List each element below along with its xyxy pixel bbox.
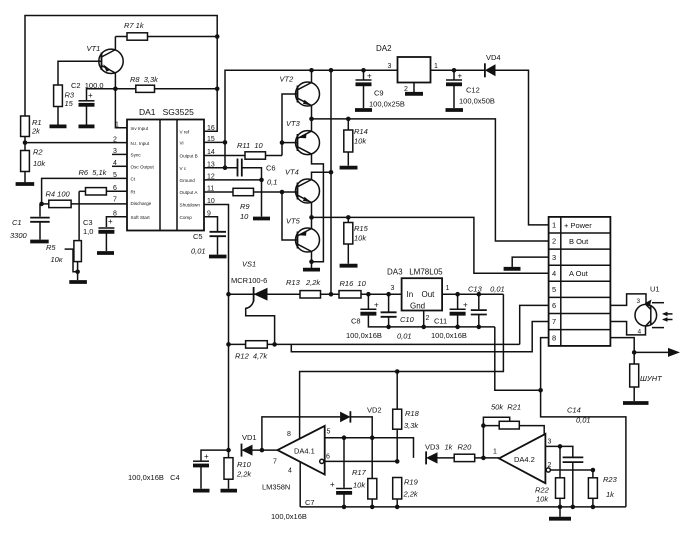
capacitor C3 (electrolytic 1,0) bbox=[83, 217, 127, 251]
svg-text:5: 5 bbox=[552, 285, 556, 294]
svg-text:+: + bbox=[463, 301, 468, 310]
svg-text:R16 10: R16 10 bbox=[340, 279, 367, 288]
svg-text:Rt: Rt bbox=[131, 190, 136, 195]
wire pin15 Vi bbox=[204, 141, 225, 143]
wire row3 to ground bbox=[512, 257, 548, 267]
svg-text:VT3: VT3 bbox=[286, 119, 301, 128]
resistor R9 (pin11 Output A) bbox=[204, 188, 282, 221]
ground under C2 bbox=[79, 125, 95, 129]
svg-text:100,0x50В: 100,0x50В bbox=[459, 97, 495, 106]
svg-text:15: 15 bbox=[65, 99, 74, 108]
node C7 tap bbox=[342, 435, 347, 440]
capacitor C9 (electrolytic 100,0x25В) bbox=[356, 70, 405, 108]
svg-text:Comp: Comp bbox=[180, 215, 193, 220]
resistor R18 bbox=[393, 372, 420, 462]
svg-text:U1: U1 bbox=[650, 285, 660, 294]
svg-text:Out: Out bbox=[422, 290, 436, 299]
svg-text:100,0x25В: 100,0x25В bbox=[369, 100, 405, 109]
node R17 on rail bbox=[370, 505, 375, 510]
resistor R15 bbox=[344, 217, 369, 263]
wire pin6 line bbox=[320, 459, 398, 463]
svg-text:2: 2 bbox=[426, 315, 430, 322]
capacitor C1 3300 bbox=[10, 204, 50, 240]
node R20/R21 tap bbox=[481, 456, 486, 461]
svg-text:3: 3 bbox=[548, 439, 552, 446]
svg-text:R8 3,3k: R8 3,3k bbox=[130, 75, 159, 84]
ground under R14 bbox=[340, 166, 358, 170]
svg-text:Soft Start: Soft Start bbox=[131, 215, 151, 220]
svg-text:2k: 2k bbox=[31, 127, 41, 136]
svg-text:100,0x16В C4: 100,0x16В C4 bbox=[128, 473, 180, 482]
node shunt top bbox=[632, 350, 637, 355]
svg-text:R4 100: R4 100 bbox=[46, 190, 71, 199]
svg-text:In: In bbox=[407, 290, 414, 299]
node VT3 base bbox=[280, 140, 285, 145]
svg-text:Inv Input: Inv Input bbox=[131, 126, 149, 131]
svg-text:C6: C6 bbox=[266, 164, 276, 173]
wire +V rail after DA2 bbox=[431, 69, 485, 71]
svg-text:3: 3 bbox=[388, 63, 392, 70]
ground under R22 bbox=[549, 517, 571, 521]
wire pin5 line bbox=[325, 438, 414, 458]
resistor R14 bbox=[344, 119, 368, 166]
wire pin13 Vc bbox=[204, 167, 238, 169]
node A junction bbox=[309, 215, 314, 220]
svg-text:100,0x16В: 100,0x16В bbox=[431, 331, 467, 340]
svg-text:VT2: VT2 bbox=[280, 75, 295, 84]
ground under R15 bbox=[340, 264, 358, 268]
node R5 wiper tie bbox=[75, 270, 80, 275]
svg-text:C2 100,0: C2 100,0 bbox=[71, 81, 104, 90]
svg-text:VD2: VD2 bbox=[367, 406, 382, 415]
resistor R6 bbox=[79, 168, 128, 241]
resistor R13 bbox=[286, 278, 339, 298]
resistor R23 bbox=[588, 470, 617, 507]
svg-text:VT1: VT1 bbox=[87, 44, 101, 53]
node C9 tap bbox=[361, 68, 366, 73]
resistor R8 bbox=[115, 75, 217, 92]
node R19 on rail bbox=[395, 505, 400, 510]
node B junction bbox=[309, 117, 314, 122]
node VT3/VT5 collector join bbox=[309, 259, 314, 264]
wire common elbow to bottom rail bbox=[541, 390, 626, 507]
wire pin4 to bottom rail bbox=[299, 462, 301, 507]
ground under C12 bbox=[446, 108, 464, 112]
wire A line bbox=[312, 217, 549, 273]
svg-text:C10: C10 bbox=[400, 315, 415, 324]
svg-text:6: 6 bbox=[326, 454, 330, 461]
svg-text:R10: R10 bbox=[237, 460, 252, 469]
wire +V rail bbox=[225, 70, 398, 167]
svg-text:ШУНТ: ШУНТ bbox=[640, 374, 663, 383]
ground under shunt bbox=[623, 401, 649, 405]
svg-text:Vi: Vi bbox=[180, 141, 184, 146]
svg-text:+: + bbox=[330, 480, 335, 489]
wire shutdown rail continues down bbox=[228, 294, 230, 450]
svg-text:1k: 1k bbox=[445, 443, 454, 452]
svg-text:V c: V c bbox=[180, 166, 187, 171]
svg-text:7: 7 bbox=[552, 317, 556, 326]
IC DA1 left pin names bbox=[131, 126, 155, 220]
capacitor C11 (electrolytic 100,0x16В) bbox=[434, 294, 468, 327]
wire pin8 V+ riser bbox=[299, 417, 301, 439]
node C8 tap bbox=[366, 292, 371, 297]
svg-text:DA4.2: DA4.2 bbox=[514, 455, 535, 464]
resistor R10 bbox=[224, 450, 252, 489]
wire Vref net down to pin16 bbox=[204, 37, 217, 132]
ground under R2 bbox=[16, 182, 35, 186]
svg-text:+: + bbox=[204, 452, 209, 461]
wire pin3 line bbox=[545, 446, 572, 456]
ground under C1 bbox=[30, 240, 49, 244]
node +V drop top bbox=[329, 68, 334, 73]
ground under C9 bbox=[355, 108, 372, 112]
node pin3/R22 bbox=[558, 444, 563, 449]
svg-text:C13 0,01: C13 0,01 bbox=[468, 285, 505, 294]
wire VT2/VT3 base riser bbox=[282, 94, 298, 156]
svg-text:VS1: VS1 bbox=[242, 260, 256, 269]
svg-text:R12 4,7k: R12 4,7k bbox=[235, 352, 268, 361]
svg-text:6: 6 bbox=[552, 301, 556, 310]
wire VT4 emitter / VT5 emitter junction bbox=[311, 203, 313, 229]
node VT2 collector on rail bbox=[309, 68, 314, 73]
wire +V drop to R13/R16 node bbox=[330, 70, 332, 294]
svg-text:3: 3 bbox=[391, 285, 395, 292]
wire VT4 collector to +V drop bbox=[312, 172, 332, 179]
capacitor C14 0,01 bbox=[563, 406, 591, 507]
svg-text:1: 1 bbox=[434, 63, 438, 70]
op-amp DA4.2 bbox=[493, 434, 552, 483]
node C13 bottom bbox=[477, 325, 482, 330]
svg-text:3: 3 bbox=[552, 253, 556, 262]
pin 4 stub bbox=[112, 165, 127, 167]
ground under VT5 bbox=[303, 268, 320, 272]
svg-text:C8: C8 bbox=[351, 317, 361, 326]
svg-text:1k: 1k bbox=[606, 490, 615, 499]
resistor ШУНТ bbox=[630, 364, 663, 401]
svg-text:C9: C9 bbox=[374, 89, 384, 98]
ground under R10 bbox=[221, 489, 238, 493]
svg-text:C12: C12 bbox=[466, 86, 480, 95]
connector X1 bbox=[549, 217, 611, 346]
svg-text:+: + bbox=[108, 217, 113, 226]
wire H2 row7 line bbox=[291, 322, 548, 352]
node R7/top rail bbox=[215, 34, 220, 39]
wire VT4 base bbox=[282, 191, 298, 193]
wire top rail from R1 to Vref net bbox=[25, 16, 217, 117]
svg-text:LM358N: LM358N bbox=[262, 483, 290, 492]
svg-text:B Out: B Out bbox=[569, 237, 589, 246]
pin 3 stub bbox=[112, 153, 127, 155]
svg-text:C1: C1 bbox=[12, 218, 22, 227]
wire VT5 base riser bbox=[282, 192, 298, 240]
thyristor VS1 MCR100-6 bbox=[231, 260, 275, 345]
op IC DA1 box bbox=[127, 107, 204, 231]
node minus/row8 join bbox=[538, 388, 543, 393]
svg-text:A Out: A Out bbox=[569, 269, 589, 278]
svg-text:R5: R5 bbox=[46, 243, 56, 252]
transistor VT2 (NPN) bbox=[280, 75, 320, 107]
svg-text:Ct: Ct bbox=[131, 177, 136, 182]
node DA3 gnd on minus rail bbox=[421, 325, 426, 330]
node R15 tap bbox=[346, 215, 351, 220]
ground under C5 bbox=[209, 255, 227, 259]
wire DA3 gnd pin2 bbox=[423, 311, 425, 327]
svg-text:+ Power: + Power bbox=[564, 221, 592, 230]
svg-text:1: 1 bbox=[493, 449, 497, 456]
diode VD3 bbox=[425, 443, 454, 465]
wire pin10 Shutdown drop bbox=[204, 205, 229, 295]
svg-text:1: 1 bbox=[552, 221, 556, 230]
node C12 tap bbox=[452, 68, 457, 73]
svg-text:DA4.1: DA4.1 bbox=[294, 447, 315, 456]
svg-text:R22: R22 bbox=[535, 486, 550, 495]
svg-text:2: 2 bbox=[113, 136, 117, 143]
svg-text:R2: R2 bbox=[33, 148, 43, 157]
wire row6 right to U1 pin3 bbox=[610, 294, 646, 306]
svg-text:0,1: 0,1 bbox=[267, 178, 277, 187]
svg-text:10k: 10k bbox=[33, 159, 46, 168]
potentiometer R21 bbox=[481, 403, 544, 458]
wire emitter to pin1 bbox=[115, 89, 127, 128]
node ground pin12 bbox=[259, 178, 264, 183]
svg-text:Osc Output: Osc Output bbox=[131, 165, 155, 170]
svg-text:1: 1 bbox=[115, 122, 119, 129]
ground under C4 bbox=[193, 489, 210, 493]
ground row3 bbox=[504, 267, 521, 271]
capacitor C2 (electrolytic 100,0) bbox=[71, 81, 115, 125]
diode VD2 bbox=[340, 406, 381, 438]
wire pin2 line bbox=[546, 468, 593, 472]
node C10 top bbox=[386, 292, 391, 297]
svg-text:VT5: VT5 bbox=[286, 217, 301, 226]
wire VT3 collector jog to ground rail bbox=[312, 154, 324, 262]
node VD2/R17 tap bbox=[370, 435, 375, 440]
svg-text:C7: C7 bbox=[305, 498, 315, 507]
wire VS1 anode line bbox=[229, 293, 301, 295]
capacitor C10 0,01 bbox=[381, 294, 415, 327]
node R8/Vref net bbox=[215, 87, 220, 92]
resistor R2 bbox=[21, 143, 47, 183]
node VS1 gate / R12 bbox=[272, 342, 277, 347]
wire VT2 emitter / VT3 emitter junction bbox=[311, 106, 313, 132]
svg-text:R9: R9 bbox=[240, 202, 250, 211]
node Vc bbox=[223, 165, 228, 170]
value labels under minus rail bbox=[346, 331, 467, 341]
svg-text:10к: 10к bbox=[51, 255, 63, 264]
svg-text:R23: R23 bbox=[603, 475, 618, 484]
wire R12 line H1 to row6 bbox=[229, 343, 246, 345]
svg-text:DA1 SG3525: DA1 SG3525 bbox=[139, 107, 194, 117]
svg-text:10k: 10k bbox=[536, 495, 549, 504]
ground under C3 bbox=[97, 251, 114, 255]
op-amp DA4.1 bbox=[262, 426, 331, 492]
svg-text:3300: 3300 bbox=[10, 231, 28, 240]
svg-text:VD4: VD4 bbox=[486, 53, 501, 62]
svg-text:DA3 LM78L05: DA3 LM78L05 bbox=[387, 268, 443, 277]
svg-text:0,01: 0,01 bbox=[191, 247, 206, 256]
node rail/R12 bbox=[226, 342, 231, 347]
svg-text:+: + bbox=[458, 72, 463, 81]
resistor R17 bbox=[352, 438, 377, 507]
wire DA3 out bbox=[442, 293, 503, 295]
resistor R16 bbox=[339, 279, 402, 298]
svg-text:Ground: Ground bbox=[180, 178, 196, 183]
svg-text:VT4: VT4 bbox=[285, 168, 299, 177]
resistor R12 bbox=[235, 341, 520, 361]
IC DA1 right pin names bbox=[180, 129, 201, 220]
svg-text:3: 3 bbox=[637, 298, 641, 305]
svg-text:2: 2 bbox=[552, 237, 556, 246]
node R13/R16/+V drop bbox=[329, 292, 334, 297]
wire pin5 Ct bbox=[42, 178, 127, 204]
node R23 on rail bbox=[591, 505, 596, 510]
svg-text:R11 10: R11 10 bbox=[237, 141, 264, 150]
svg-text:C5: C5 bbox=[193, 232, 203, 241]
svg-text:C14: C14 bbox=[567, 406, 581, 415]
svg-text:Sync: Sync bbox=[131, 153, 142, 158]
svg-text:0,01: 0,01 bbox=[397, 332, 412, 341]
svg-text:10k: 10k bbox=[354, 234, 367, 243]
svg-text:C11: C11 bbox=[434, 317, 447, 326]
node C14 on rail bbox=[571, 505, 576, 510]
node DA4.1 output / feedback bbox=[260, 448, 265, 453]
IC DA1 pin numbers right bbox=[207, 125, 215, 218]
node C11 bottom bbox=[455, 325, 460, 330]
capacitor C8 (electrolytic 100,0x16В) bbox=[351, 294, 495, 327]
wire row7 right to U1 pin4 bbox=[610, 322, 645, 335]
node C11 top bbox=[455, 292, 460, 297]
wire VT2 collector bbox=[311, 70, 313, 82]
node shutdown rail at VS1 line bbox=[226, 292, 231, 297]
wire VD4 to connector row1 bbox=[496, 70, 549, 225]
wire H1 up to row6 bbox=[520, 305, 549, 344]
wire to ground symbol bbox=[261, 180, 263, 217]
ground under DA2 bbox=[405, 92, 423, 96]
ground under R5 bbox=[69, 280, 87, 284]
node R14 tap bbox=[346, 117, 351, 122]
node VT4 collector tap bbox=[329, 170, 334, 175]
node C10 bottom bbox=[386, 325, 391, 330]
node junction R1/R2/pin2 bbox=[23, 140, 28, 145]
svg-text:VD3: VD3 bbox=[425, 443, 440, 452]
diode VD4 bbox=[485, 53, 501, 77]
transistor VT5 (PNP) bbox=[286, 217, 320, 253]
svg-text:3,3k: 3,3k bbox=[404, 421, 419, 430]
svg-text:+: + bbox=[367, 72, 372, 81]
resistor R3 bbox=[54, 85, 75, 125]
light arrows into U1 bbox=[662, 312, 673, 322]
svg-text:8: 8 bbox=[552, 333, 556, 342]
node C7 on rail bbox=[342, 505, 347, 510]
wire minus rail descent bbox=[495, 327, 541, 390]
svg-text:R17: R17 bbox=[352, 468, 367, 477]
resistor R22 bbox=[535, 446, 565, 516]
svg-text:4: 4 bbox=[638, 329, 642, 336]
svg-text:R6 5,1k: R6 5,1k bbox=[79, 168, 108, 177]
svg-text:7: 7 bbox=[113, 197, 117, 204]
resistor R7 bbox=[115, 21, 217, 50]
resistor R4 bbox=[42, 190, 127, 208]
ground under R3 bbox=[50, 125, 67, 129]
svg-text:VD1: VD1 bbox=[242, 433, 257, 442]
capacitor C13 0,01 bbox=[468, 285, 505, 327]
wire H3 R18 tap bbox=[395, 369, 400, 374]
node Vi bbox=[223, 140, 228, 145]
svg-text:4: 4 bbox=[288, 468, 292, 475]
wire VT5 collector to ground bbox=[311, 252, 313, 270]
wire pin2 N.I.Input bbox=[25, 142, 127, 144]
svg-text:16: 16 bbox=[207, 125, 215, 132]
wire VT3 base bbox=[282, 142, 298, 144]
svg-text:10k: 10k bbox=[354, 137, 367, 146]
svg-text:R13 2,2k: R13 2,2k bbox=[286, 278, 321, 287]
node VT4 base bbox=[280, 190, 285, 195]
svg-text:R20: R20 bbox=[458, 443, 473, 452]
capacitor C4 (electrolytic 100,0x16В) bbox=[128, 450, 229, 489]
svg-text:10k: 10k bbox=[353, 481, 366, 490]
svg-text:R15: R15 bbox=[354, 224, 369, 233]
svg-text:1: 1 bbox=[446, 285, 450, 292]
wire B line bbox=[312, 119, 549, 241]
node pin2/R23 bbox=[591, 468, 596, 473]
svg-text:R18: R18 bbox=[405, 409, 420, 418]
svg-text:1,0: 1,0 bbox=[83, 227, 93, 236]
svg-text:R7 1k: R7 1k bbox=[124, 21, 145, 30]
wire row8 left to minus node bbox=[541, 338, 549, 391]
resistor R11 (pin14 Output B) bbox=[204, 141, 282, 159]
capacitor C5 0,01 (pin9 Comp) bbox=[191, 217, 226, 256]
svg-text:Shutdown: Shutdown bbox=[180, 203, 201, 208]
resistor R20 bbox=[454, 443, 499, 462]
svg-text:50k R21: 50k R21 bbox=[491, 403, 521, 412]
svg-text:10: 10 bbox=[240, 212, 249, 221]
svg-text:7: 7 bbox=[273, 459, 277, 466]
resistor R1 bbox=[21, 116, 42, 143]
regulator DA2 bbox=[376, 44, 438, 93]
svg-text:DA2: DA2 bbox=[376, 44, 392, 53]
ground of C6 net bbox=[253, 217, 270, 221]
svg-text:MCR100-6: MCR100-6 bbox=[231, 276, 267, 285]
wire row8 right to shunt / output arrow bbox=[610, 338, 634, 364]
regulator DA3 LM78L05 bbox=[387, 268, 450, 323]
node R22 on rail bbox=[558, 505, 563, 510]
wire bottom common rail bbox=[300, 506, 626, 508]
svg-text:C3: C3 bbox=[83, 218, 93, 227]
transistor VT1 (PNP) bbox=[87, 44, 124, 89]
node C13 top bbox=[477, 292, 482, 297]
wire VT1 base to R3 bbox=[58, 61, 102, 85]
svg-text:8: 8 bbox=[287, 431, 291, 438]
node Ct/C1/R4 bbox=[39, 202, 44, 207]
node R18/R19 junction bbox=[395, 459, 400, 464]
wire pin12 Ground bbox=[204, 179, 262, 181]
potentiometer R5 bbox=[46, 241, 81, 280]
capacitor C7 (electrolytic 100,0x16В) bbox=[271, 438, 352, 521]
resistor R19 bbox=[393, 478, 419, 507]
phototransistor U1 bbox=[635, 285, 664, 328]
diode VD1 bbox=[242, 433, 278, 457]
svg-text:0,01: 0,01 bbox=[576, 416, 591, 425]
wire output arrow bbox=[634, 351, 672, 353]
capacitor C12 (electrolytic 100,0x50В) bbox=[446, 70, 495, 108]
svg-text:N.I. Input: N.I. Input bbox=[131, 141, 150, 146]
svg-text:2,2k: 2,2k bbox=[403, 490, 419, 499]
svg-text:Gnd: Gnd bbox=[410, 302, 425, 311]
svg-text:100,0x16В: 100,0x16В bbox=[346, 331, 382, 340]
wire +5V descent to H3 bbox=[300, 294, 504, 417]
svg-text:Output B: Output B bbox=[180, 154, 198, 159]
